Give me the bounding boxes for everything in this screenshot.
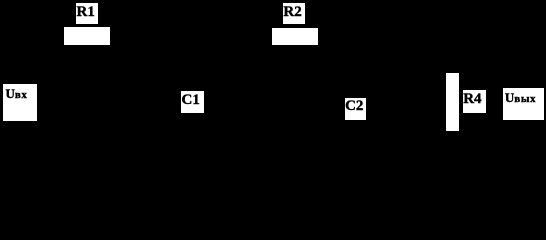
resistor R2 body	[272, 28, 318, 46]
resistor R4 label	[463, 90, 487, 113]
capacitor C2 label	[345, 98, 367, 120]
resistor R1 body	[64, 27, 110, 45]
node Uvx (input voltage label)	[3, 84, 37, 121]
resistor R1 label	[76, 3, 99, 24]
node Uvyx (output voltage label)	[503, 88, 544, 120]
resistor R4 body	[446, 73, 459, 132]
resistor R2 label	[283, 3, 306, 24]
capacitor C1 label	[181, 91, 204, 113]
